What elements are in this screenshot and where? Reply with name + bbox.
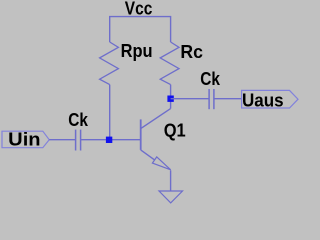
transistor Q1	[141, 99, 171, 170]
wire emitter to ground	[170, 170, 172, 191]
capacitor Ck (input)	[75, 130, 77, 151]
svg-text:Ck: Ck	[200, 69, 221, 89]
svg-text:Vcc: Vcc	[125, 0, 153, 19]
wire Rpu bottom to base node	[109, 85, 111, 140]
resistor Rpu	[100, 42, 119, 85]
svg-text:Rc: Rc	[180, 42, 203, 62]
port Uin	[2, 131, 49, 148]
svg-text:Q1: Q1	[164, 120, 186, 140]
svg-text:Uaus: Uaus	[242, 91, 284, 111]
node collector junction	[167, 96, 173, 102]
port Uaus	[242, 90, 298, 108]
svg-text:Rpu: Rpu	[121, 41, 153, 61]
capacitor Ck (output)	[208, 89, 210, 109]
resistor Rc	[160, 42, 179, 85]
svg-text:Uin: Uin	[8, 130, 40, 150]
svg-text:Ck: Ck	[68, 110, 89, 130]
wire Ck to base node	[81, 139, 141, 141]
wire Rc bottom to collector node	[170, 85, 172, 99]
Vcc rail wire	[110, 17, 171, 42]
ground	[159, 191, 183, 203]
wire Ck to Uaus	[214, 98, 242, 100]
node base junction	[106, 137, 112, 143]
wire Uin to Ck	[49, 139, 75, 141]
wire collector node to Ck	[171, 98, 209, 100]
